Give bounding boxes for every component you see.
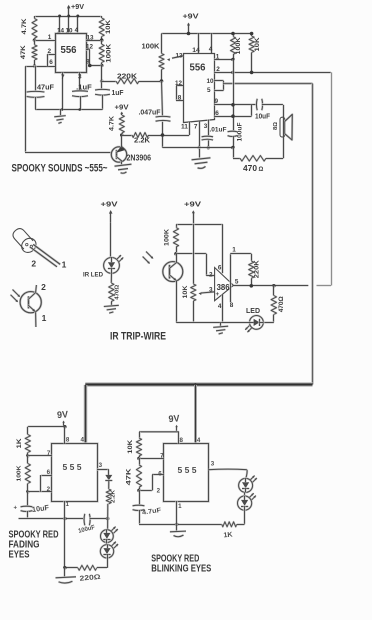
svg-text:6: 6 [158,470,162,477]
svg-text:6: 6 [49,59,53,66]
svg-text:470Ω: 470Ω [115,284,121,299]
svg-text:10: 10 [207,78,214,85]
svg-text:8: 8 [179,437,183,444]
svg-text:13: 13 [87,34,94,41]
svg-text:2: 2 [31,258,36,268]
svg-text:10uF: 10uF [255,113,271,120]
svg-text:1: 1 [232,246,236,253]
svg-text:SPOOKY SOUNDS ~555~: SPOOKY SOUNDS ~555~ [12,162,108,174]
svg-text:BLINKING EYES: BLINKING EYES [151,562,211,574]
svg-text:3: 3 [209,286,213,293]
svg-text:+9V: +9V [71,2,84,11]
svg-text:3: 3 [204,123,208,130]
svg-text:3: 3 [211,460,215,467]
svg-text:8: 8 [230,302,234,309]
svg-text:4: 4 [218,303,222,310]
svg-text:2: 2 [216,66,220,73]
svg-text:470: 470 [243,164,258,173]
svg-text:+: + [14,506,18,512]
svg-text:5: 5 [207,87,211,94]
svg-text:5 5 5: 5 5 5 [63,463,83,472]
svg-text:4.7K: 4.7K [109,115,116,131]
svg-text:5: 5 [235,278,239,285]
svg-text:8: 8 [66,437,70,444]
svg-text:1: 1 [62,259,67,269]
svg-text:9V: 9V [168,413,180,425]
svg-text:220K: 220K [254,260,261,278]
svg-text:2: 2 [47,486,51,493]
svg-text:Ω: Ω [259,167,264,173]
svg-text:12: 12 [175,80,182,87]
svg-text:100K: 100K [105,43,112,62]
svg-text:1: 1 [48,34,52,41]
svg-text:47uF: 47uF [37,84,55,91]
svg-text:2: 2 [41,282,46,292]
svg-text:8Ω: 8Ω [273,122,279,130]
svg-text:8: 8 [86,59,90,66]
svg-text:7: 7 [160,453,164,460]
svg-text:1: 1 [178,503,182,510]
svg-text:4.7K: 4.7K [21,18,28,34]
svg-text:13: 13 [176,52,183,59]
svg-text:2.2K: 2.2K [134,137,150,144]
svg-text:1uF: 1uF [112,90,125,97]
svg-text:1K: 1K [223,531,233,539]
svg-text:2: 2 [157,487,161,494]
svg-text:14: 14 [192,47,200,54]
svg-text:.01uF: .01uF [210,127,227,134]
svg-text:4: 4 [80,437,84,444]
svg-text:100K: 100K [235,37,242,54]
svg-text:100K: 100K [17,465,23,482]
svg-text:4: 4 [197,437,201,444]
svg-text:1: 1 [216,54,220,61]
svg-text:10K: 10K [254,37,261,51]
svg-text:7: 7 [194,124,198,131]
svg-text:EYES: EYES [9,549,30,561]
svg-text:+9V: +9V [115,103,129,112]
svg-text:100uF: 100uF [237,122,244,141]
svg-text:100K: 100K [163,228,170,246]
svg-text:IR LED: IR LED [83,271,103,278]
svg-text:4: 4 [209,46,213,53]
svg-text:9V: 9V [57,409,69,421]
svg-text:2.2K: 2.2K [111,490,117,503]
svg-text:10K: 10K [128,439,134,454]
svg-text:+9V: +9V [183,12,199,21]
svg-text:47K: 47K [20,45,27,59]
svg-text:+9V: +9V [184,200,201,209]
svg-text:IR TRIP-WIRE: IR TRIP-WIRE [110,330,166,342]
svg-text:1: 1 [65,501,69,508]
svg-text:10K: 10K [105,20,112,34]
svg-text:11: 11 [181,124,188,131]
svg-text:6: 6 [47,469,51,476]
svg-text:556: 556 [190,62,206,74]
svg-text:1K: 1K [17,438,23,449]
svg-text:2: 2 [209,272,213,279]
svg-text:3: 3 [99,462,103,469]
svg-text:7: 7 [61,74,65,81]
svg-text:6: 6 [218,264,222,271]
svg-text:8: 8 [178,94,182,101]
svg-text:+: + [215,291,219,298]
svg-text:3: 3 [78,73,82,80]
svg-text:1: 1 [42,313,47,323]
svg-text:100K: 100K [142,42,161,51]
svg-text:.1uF: .1uF [76,84,92,91]
svg-text:6: 6 [215,110,219,117]
svg-text:+9V: +9V [101,200,118,209]
svg-text:470Ω: 470Ω [279,296,285,312]
svg-text:9: 9 [215,98,219,105]
svg-text:LED: LED [246,306,260,315]
svg-text:12: 12 [86,43,93,50]
svg-text:2: 2 [48,48,52,55]
svg-text:556: 556 [61,44,77,56]
svg-text:.047uF: .047uF [139,110,162,117]
svg-text:2N3906: 2N3906 [127,153,152,163]
svg-text:10K: 10K [183,285,189,299]
svg-text:47K: 47K [127,467,133,485]
svg-text:220K: 220K [117,72,138,81]
svg-text:5 5 5: 5 5 5 [178,466,198,475]
svg-text:7: 7 [47,450,51,457]
